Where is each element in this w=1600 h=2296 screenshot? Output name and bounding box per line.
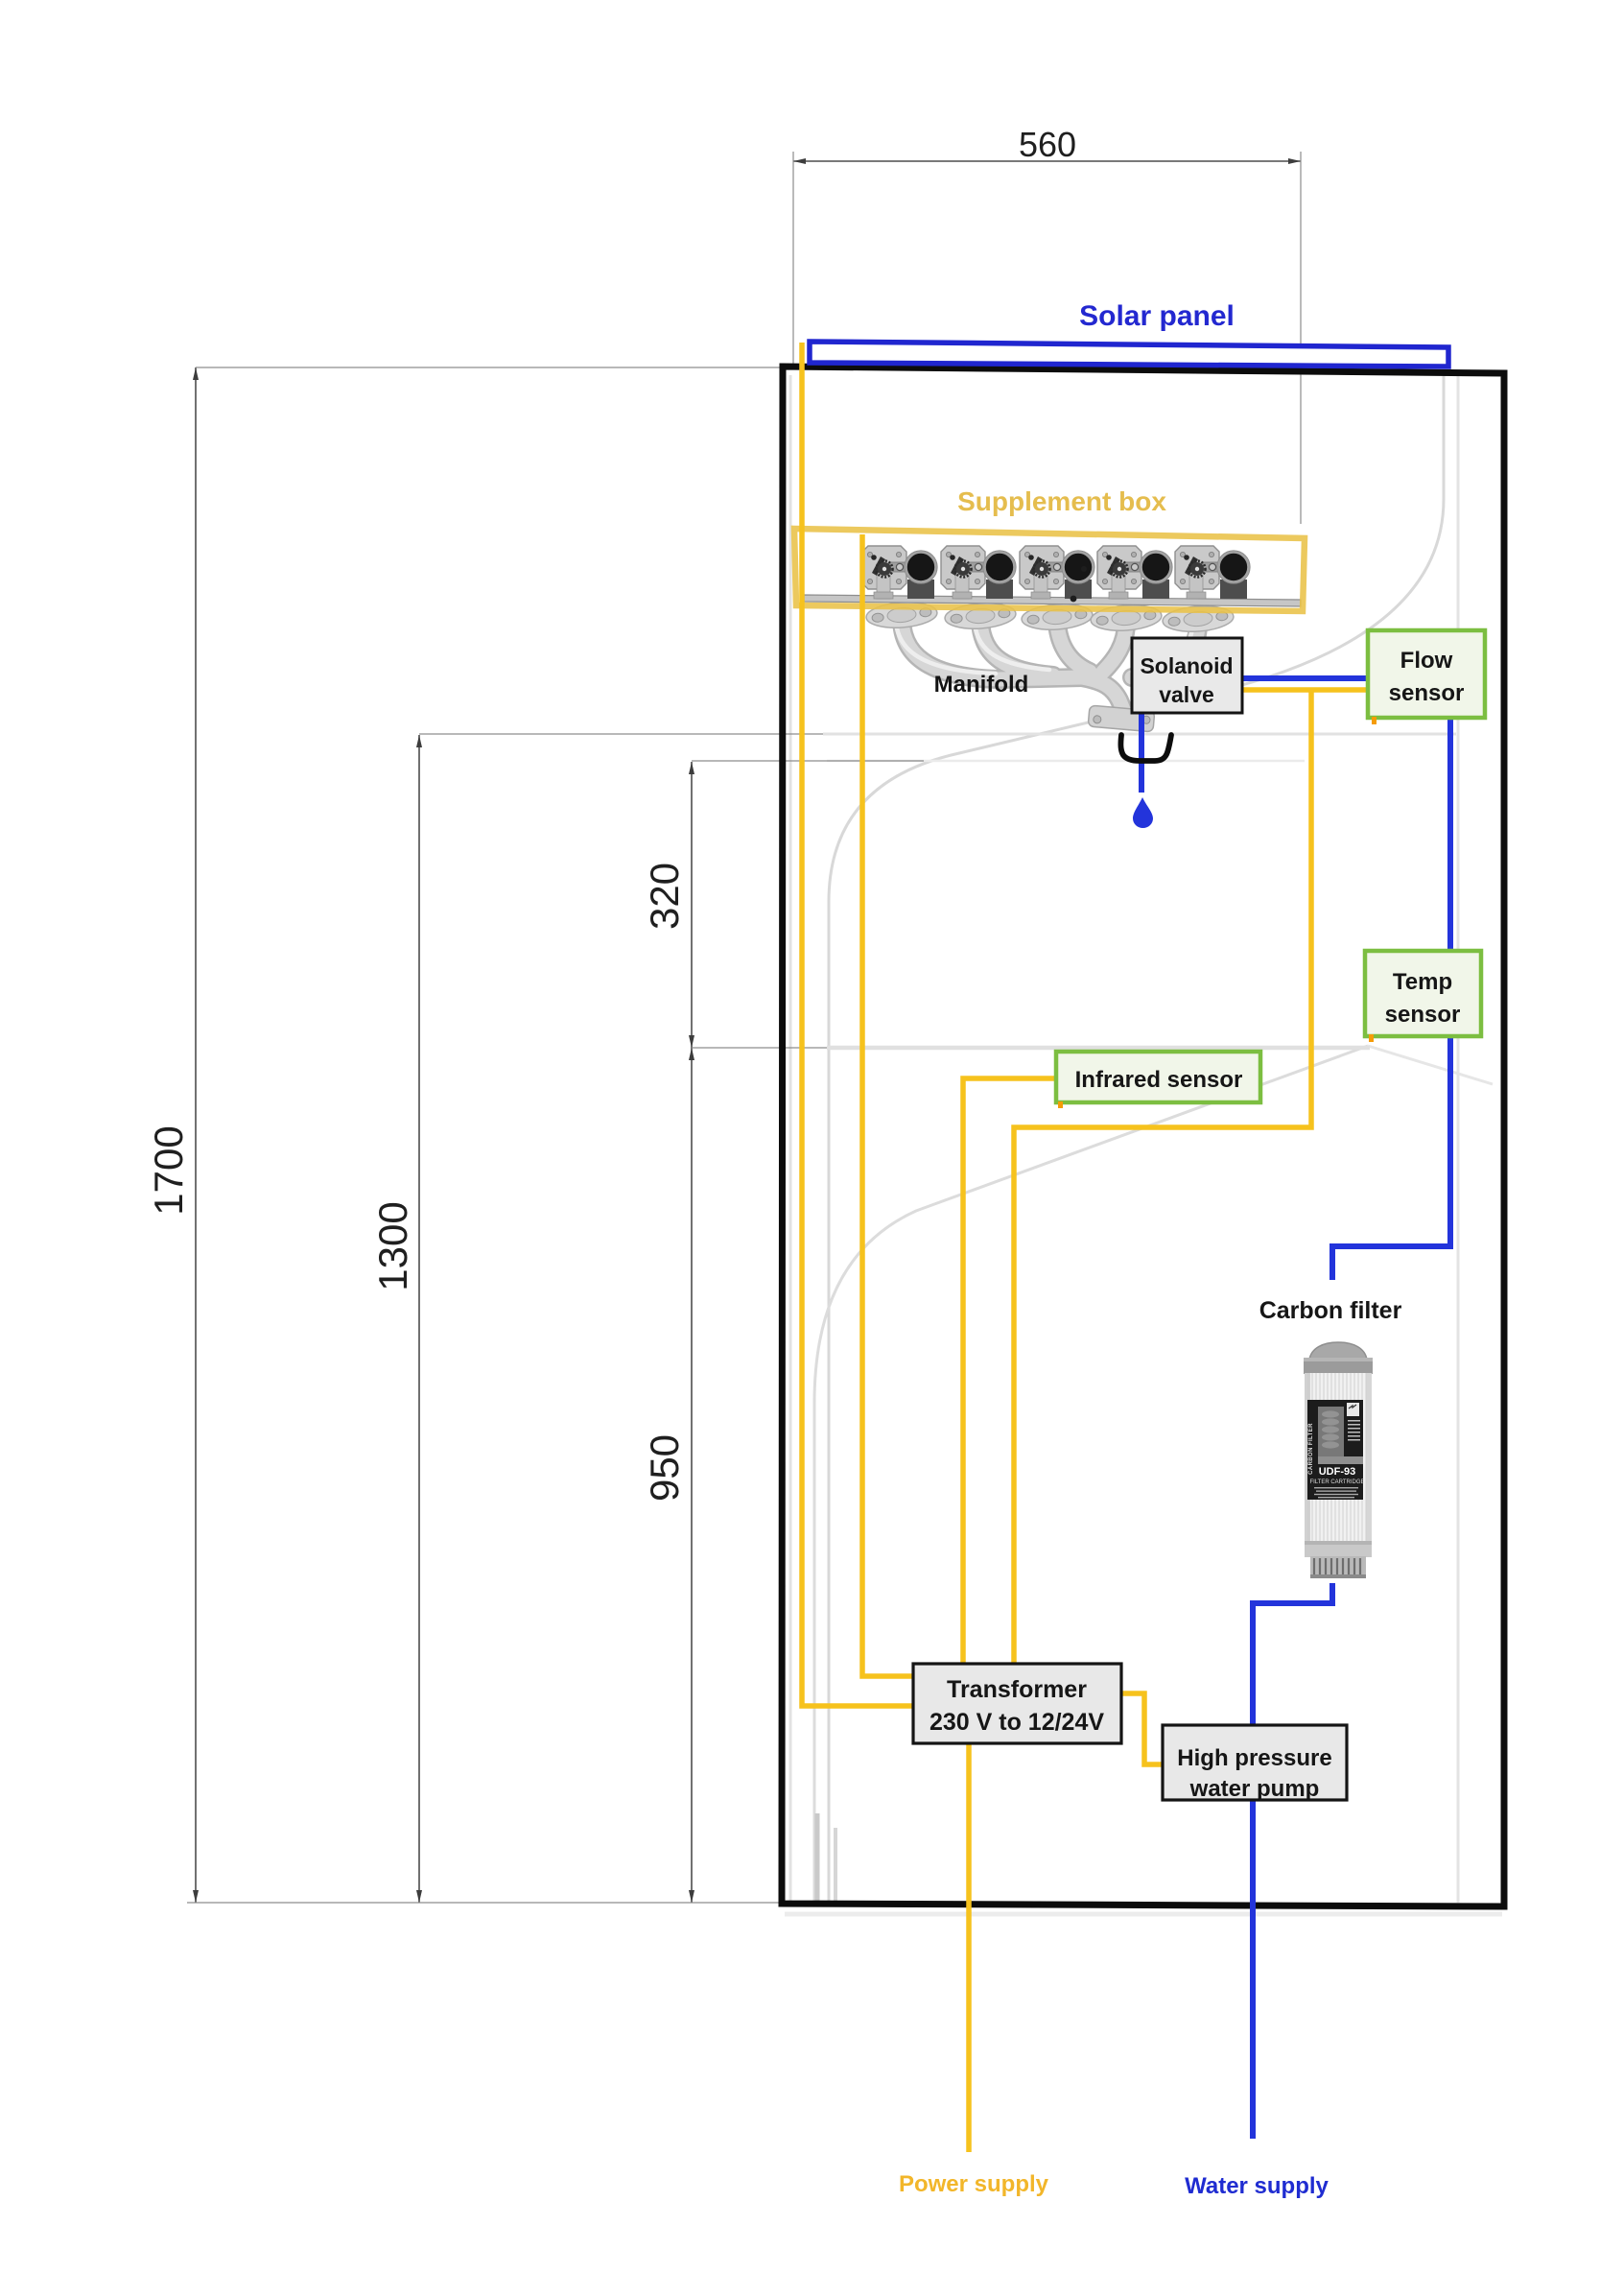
svg-text:1300: 1300	[370, 1201, 415, 1290]
svg-text:Supplement box: Supplement box	[957, 486, 1166, 516]
svg-text:Temp: Temp	[1393, 969, 1452, 995]
svg-text:valve: valve	[1159, 682, 1214, 707]
svg-text:Manifold: Manifold	[934, 672, 1029, 698]
svg-text:Flow: Flow	[1400, 648, 1453, 674]
svg-text:CARBON FILTER: CARBON FILTER	[1308, 1423, 1314, 1475]
svg-text:560: 560	[1019, 125, 1076, 164]
svg-text:230 V to 12/24V: 230 V to 12/24V	[929, 1709, 1104, 1736]
svg-text:FILTER CARTRIDGE: FILTER CARTRIDGE	[1309, 1479, 1364, 1485]
svg-text:Solanoid: Solanoid	[1140, 653, 1233, 678]
svg-text:UDF-93: UDF-93	[1319, 1466, 1356, 1478]
svg-text:Power supply: Power supply	[899, 2171, 1049, 2197]
svg-text:Solar panel: Solar panel	[1079, 300, 1235, 332]
svg-text:1700: 1700	[146, 1125, 191, 1215]
svg-text:sensor: sensor	[1389, 680, 1465, 706]
svg-text:water pump: water pump	[1189, 1776, 1320, 1802]
svg-text:Water supply: Water supply	[1185, 2173, 1329, 2199]
svg-text:Transformer: Transformer	[947, 1676, 1087, 1703]
svg-text:Carbon filter: Carbon filter	[1259, 1297, 1402, 1324]
svg-text:320: 320	[642, 863, 687, 930]
svg-text:950: 950	[642, 1434, 687, 1502]
svg-text:High pressure: High pressure	[1177, 1745, 1331, 1771]
svg-text:sensor: sensor	[1385, 1002, 1461, 1028]
svg-text:Infrared sensor: Infrared sensor	[1075, 1067, 1243, 1093]
